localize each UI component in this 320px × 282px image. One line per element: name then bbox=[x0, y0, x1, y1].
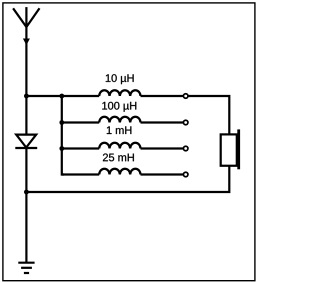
junction node B (sub-bus/row1) bbox=[59, 94, 64, 99]
wire right bus bottom + bottom wire bbox=[26, 166, 229, 192]
terminal T3 bbox=[183, 146, 188, 151]
terminal T2 bbox=[183, 120, 188, 125]
junction node D (sub-bus/row3) bbox=[59, 146, 64, 151]
wire row3 left bbox=[62, 147, 99, 149]
inductor L1 10 µH bbox=[99, 90, 140, 96]
wire row2 left bbox=[62, 121, 99, 123]
earphone LS1 body bbox=[221, 134, 237, 165]
wire row1 left bbox=[26, 95, 99, 97]
junction node A (bus/row1) bbox=[24, 94, 29, 99]
label 1 mH bbox=[107, 126, 132, 134]
wire row1 right bbox=[141, 96, 230, 134]
inductor L3 1 mH bbox=[99, 143, 140, 149]
diode D1 bbox=[15, 135, 37, 148]
inductor L2 100 µH bbox=[99, 117, 140, 123]
wire row3 right bbox=[141, 147, 184, 149]
ground bbox=[18, 263, 34, 273]
junction node E (bus/bottom wire) bbox=[24, 190, 29, 195]
terminal T1 bbox=[183, 94, 188, 99]
wire row4 left bbox=[62, 173, 99, 175]
earphone LS1 plate bbox=[237, 129, 240, 169]
inductor L4 25 mH bbox=[99, 169, 140, 175]
vertical sub-bus bbox=[62, 96, 64, 175]
label 100 µH bbox=[102, 102, 136, 112]
junction node C (sub-bus/row2) bbox=[59, 120, 64, 125]
wire row4 right bbox=[141, 173, 184, 175]
label 10 µH bbox=[106, 74, 134, 84]
terminal T4 bbox=[183, 172, 188, 177]
wire antenna to diode bbox=[25, 27, 27, 135]
border frame bbox=[3, 3, 255, 281]
label 25 mH bbox=[103, 154, 134, 162]
antenna ANT1 bbox=[13, 7, 39, 45]
wire diode to ground bbox=[25, 148, 27, 263]
wire row2 right bbox=[141, 121, 184, 123]
